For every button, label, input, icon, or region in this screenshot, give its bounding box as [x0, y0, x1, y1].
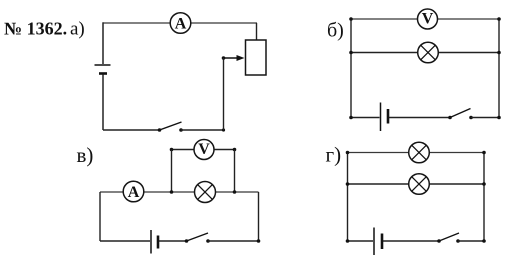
lamp (circuit b) [418, 42, 439, 63]
wire: circuit g left vertical [347, 153, 349, 242]
wire: circuit g bottom left horizontal [348, 240, 374, 242]
wire: circuit b top horizontal [351, 18, 499, 20]
node: circuit g top left [346, 151, 350, 155]
svg-text:V: V [422, 11, 434, 28]
wire: circuit a right vertical into rheostat top [256, 23, 258, 40]
wire: circuit a bottom left horizontal [103, 129, 160, 131]
battery (circuit g) [374, 228, 382, 256]
voltmeter V (circuit v) [194, 140, 214, 160]
wire: circuit g bottom middle horizontal [383, 240, 439, 242]
wire: wiper arrow into rheostat [224, 55, 245, 61]
wire: circuit a top horizontal (battery top to rheostat) [103, 22, 257, 24]
node: circuit v bottom right corner [257, 239, 261, 243]
wire: circuit a left vertical (battery to bottom) [102, 75, 104, 131]
node: circuit v middle right junction [233, 190, 237, 194]
node: circuit v voltmeter branch left [170, 148, 174, 152]
wire: circuit v voltmeter left drop [171, 150, 173, 193]
svg-text:б): б) [327, 20, 344, 42]
wire: circuit g middle horizontal [348, 183, 485, 185]
battery (circuit b) [381, 103, 389, 132]
lamp (circuit g, top) [409, 142, 430, 163]
switch (circuit g, open) [437, 233, 460, 243]
node: circuit b bottom right [497, 116, 501, 120]
switch (circuit a, open) [158, 122, 183, 132]
node: circuit v voltmeter branch right [233, 148, 237, 152]
rheostat (slide resistor, circuit a) [246, 40, 267, 75]
svg-text:а): а) [70, 19, 85, 40]
lamp (circuit v) [195, 182, 216, 203]
wire: circuit v middle horizontal [100, 191, 259, 193]
wire: circuit g bottom right horizontal [458, 240, 484, 242]
node: circuit b top left [349, 17, 353, 21]
node: circuit b bottom left [349, 116, 353, 120]
node: circuit b middle right [497, 51, 501, 55]
wire: circuit a left vertical (top to battery) [102, 22, 104, 64]
battery (circuit a) [95, 65, 111, 74]
wire: circuit a right vertical (bottom corner up to wiper) [223, 58, 225, 130]
wire: circuit v bottom left horizontal [100, 240, 150, 242]
wire: circuit b right vertical [498, 19, 500, 118]
node: circuit b middle left [349, 51, 353, 55]
wire: circuit b bottom left horizontal [351, 117, 380, 119]
switch (circuit v, open) [185, 233, 210, 243]
node: circuit g middle left [346, 182, 350, 186]
ammeter A (circuit v) [123, 181, 144, 202]
ammeter A (circuit a) [170, 13, 191, 34]
node: circuit v middle left junction [170, 190, 174, 194]
wire: circuit b middle horizontal [351, 52, 499, 54]
wire: circuit v bottom right horizontal [208, 240, 259, 242]
wire: circuit v voltmeter branch horizontal [172, 149, 235, 151]
wire: circuit b left vertical [350, 19, 352, 118]
wire: circuit g top horizontal [348, 152, 485, 154]
svg-text:A: A [128, 184, 140, 201]
wire: circuit b bottom right horizontal [471, 117, 499, 119]
svg-text:V: V [198, 141, 210, 158]
node: circuit b top right [497, 17, 501, 21]
node: circuit g middle right [482, 182, 486, 186]
wire: circuit v right vertical [258, 192, 260, 241]
node: circuit g bottom right [482, 239, 486, 243]
node: rheostat wiper junction [222, 56, 226, 60]
switch (circuit b, open) [448, 109, 473, 120]
svg-text:г): г) [326, 143, 342, 167]
wire: circuit b bottom middle horizontal [389, 117, 450, 119]
battery (circuit v) [151, 230, 158, 254]
wire: circuit g right vertical [483, 153, 485, 242]
node: circuit g top right [482, 151, 486, 155]
lamp (circuit g, middle) [409, 174, 430, 195]
node: circuit g bottom left [346, 239, 350, 243]
svg-text:№ 1362.: № 1362. [4, 19, 67, 39]
svg-text:A: A [175, 15, 187, 32]
wire: circuit a bottom right horizontal [181, 129, 224, 131]
svg-text:в): в) [77, 143, 94, 167]
wire: circuit v left vertical [99, 192, 101, 241]
wire: circuit v bottom middle horizontal [159, 240, 187, 242]
node: circuit a bottom right corner [222, 128, 225, 131]
wire: circuit v voltmeter right drop [234, 150, 236, 193]
voltmeter V (circuit b) [418, 9, 438, 29]
